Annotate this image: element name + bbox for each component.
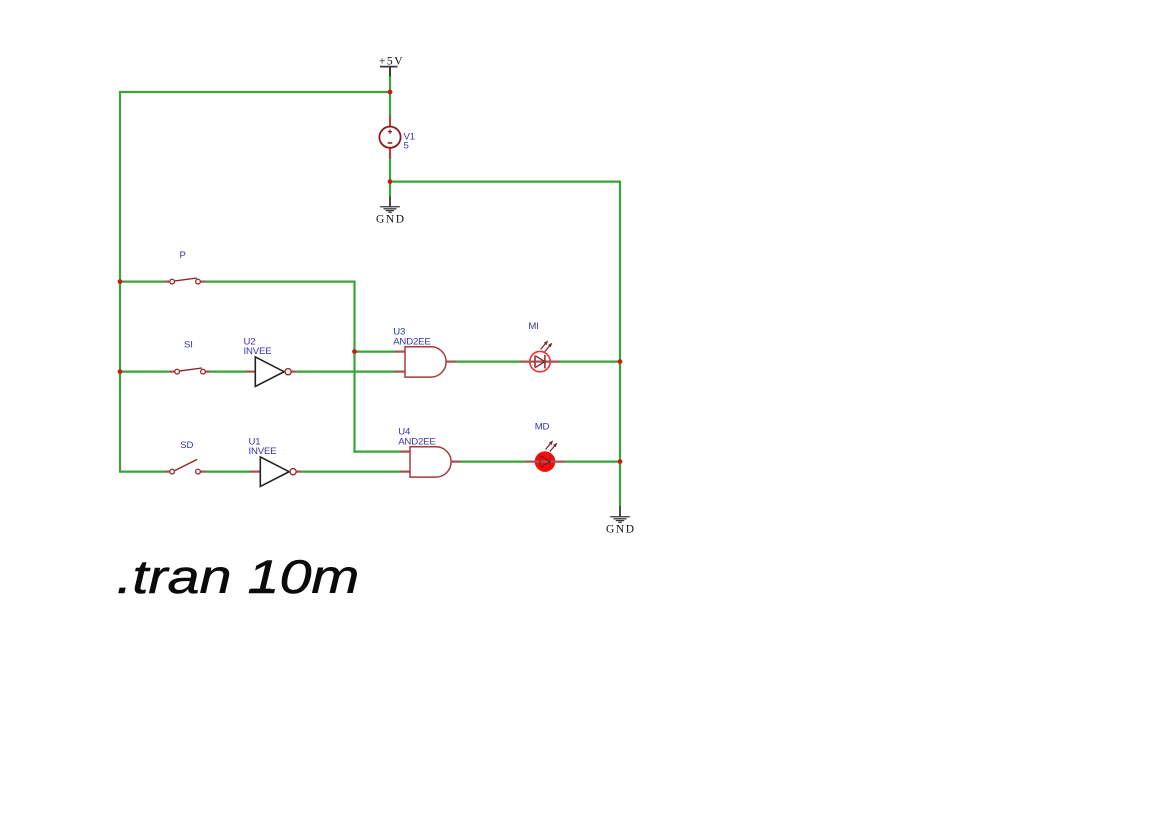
svg-text:SD: SD [180,440,193,451]
wire P switch to vertical net [205,281,356,283]
wire vertical net P [353,282,355,453]
junction node P net / U3 top input [352,349,357,354]
wire U3 output to MI [455,361,521,363]
wire to U4 top input [355,451,401,453]
svg-text:GND: GND [606,524,636,536]
svg-text:INVEE: INVEE [249,446,277,457]
AND gate U3 [393,327,455,377]
wire right rail horizontal [390,181,620,183]
svg-text:P: P [180,250,186,261]
svg-text:5: 5 [404,141,409,152]
svg-text:INVEE: INVEE [244,346,272,357]
wire top rail [120,91,390,93]
wire V1 bottom lead to junction [389,158,391,182]
svg-text:+5V: +5V [379,55,404,67]
junction node V1 minus / right rail [388,179,393,184]
svg-text:GND: GND [376,213,406,225]
wire P row left [120,281,166,283]
inverter U1 [249,436,302,486]
junction node MI / right rail [618,359,623,364]
wire SI switch to U2 input [210,371,246,373]
AND gate U4 [398,427,460,477]
junction node MD / right rail [618,459,623,464]
wire +5V flag to top junction [389,76,391,93]
wire left rail vertical [119,91,121,473]
wire U2 output to U3 bottom input [296,371,396,373]
svg-text:.tran 10m: .tran 10m [116,551,359,604]
wire MD to right rail [565,461,621,463]
ground GND2 [606,506,636,536]
ground GND1 [376,197,406,226]
spice directive .tran 10m [116,551,359,604]
wire U4 output to MD [460,461,526,463]
switch P [165,250,205,284]
LED MD [526,422,566,472]
wire left rail to SD switch [120,471,166,473]
junction node top rail / V1 [388,90,393,95]
svg-text:SI: SI [184,339,193,350]
svg-text:MD: MD [535,422,550,433]
svg-text:AND2EE: AND2EE [393,336,431,347]
svg-text:AND2EE: AND2EE [398,436,436,447]
wire MI to right rail [560,361,621,363]
inverter U2 [244,336,297,386]
power flag +5V [379,55,404,76]
wire to U3 top input [355,351,396,353]
svg-text:MI: MI [528,321,538,332]
switch SI [170,339,210,374]
wire SI row left [120,371,171,373]
wire right rail vertical [619,181,621,507]
junction node left rail / SI [118,369,123,374]
wire V1 top lead to junction [389,92,391,116]
switch SD [165,440,205,474]
wire U1 output to U4 bottom input [301,471,401,473]
voltage source V1 [379,116,415,159]
LED MI [521,321,561,372]
junction node left rail / P [118,279,123,284]
wire junction to GND1 [389,182,391,197]
wire SD switch to U1 input [205,471,251,473]
